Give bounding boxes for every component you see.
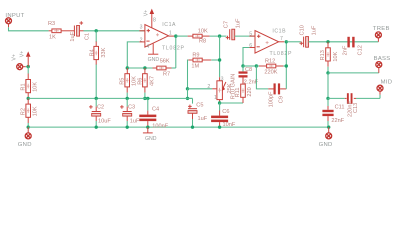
svg-text:R12: R12 (265, 59, 275, 65)
wire C3 to bottom rail (126, 121, 128, 127)
node wiper tee (186, 87, 189, 90)
pad V+ (12, 54, 23, 70)
svg-text:TL082P: TL082P (270, 51, 293, 57)
pad GND right (319, 127, 333, 148)
capacitor C9 100pF (268, 83, 286, 107)
wire R6 bottom to rail (144, 93, 146, 99)
node R12 right (285, 64, 288, 67)
wire feedback rail (127, 67, 152, 69)
svg-text:C2: C2 (97, 105, 104, 111)
resistor R9 1M (188, 52, 211, 69)
svg-text:MID: MID (381, 80, 393, 86)
node Vref left (27, 97, 30, 100)
svg-text:BASS: BASS (374, 56, 391, 62)
svg-text:10uF: 10uF (98, 119, 111, 125)
trimmer R10 GAIN 25K (207, 74, 236, 103)
svg-text:1uF: 1uF (130, 119, 140, 125)
op-amp IC1A (145, 22, 185, 51)
capacitor C5 1uF polarized (188, 98, 208, 122)
svg-text:R5: R5 (120, 78, 126, 85)
resistor R12 220K (256, 59, 286, 76)
capacitor C7 1uF polarized (223, 18, 241, 40)
svg-text:2nF: 2nF (343, 45, 349, 55)
wire C9 right up to output (285, 42, 287, 89)
node output IC1A (174, 34, 177, 37)
svg-text:R13: R13 (320, 50, 326, 60)
resistor R11 220 (235, 81, 253, 103)
wire Vref rail (28, 97, 192, 99)
wire -in of IC1A to feedback node (127, 42, 139, 68)
node C6 bottom (218, 125, 221, 128)
wire R13 bottom to BASS line (327, 67, 329, 73)
supply symbol V+ (19, 51, 30, 67)
svg-text:GND: GND (18, 142, 32, 148)
svg-text:C5: C5 (196, 102, 203, 108)
wire R4 bottom to Vref rail (95, 65, 97, 99)
svg-text:1uF: 1uF (311, 25, 317, 35)
svg-text:C9: C9 (279, 96, 285, 103)
wire bottom ground rail (28, 126, 329, 128)
wire -in IC1B to node (243, 48, 249, 67)
svg-text:100nF: 100nF (152, 124, 168, 130)
wire R9 left down to rail corner (187, 60, 190, 89)
svg-text:IC1A: IC1A (162, 22, 176, 28)
capacitor C10 1uF polarized (299, 25, 317, 47)
node MID tap (326, 97, 329, 100)
svg-text:4: 4 (146, 44, 149, 50)
svg-text:33K: 33K (101, 47, 107, 57)
wire output to R8 (176, 35, 188, 37)
svg-text:8: 8 (153, 18, 156, 24)
svg-text:R9: R9 (192, 52, 199, 58)
svg-text:1K: 1K (49, 35, 56, 41)
svg-text:3: 3 (140, 25, 143, 31)
wire C1 to opamp +in (84, 30, 146, 32)
svg-text:4K7: 4K7 (149, 76, 155, 86)
svg-text:R7: R7 (163, 72, 170, 78)
svg-text:56K: 56K (160, 59, 170, 65)
resistor R1 10K (21, 67, 39, 99)
ground symbol IC1A pin 4 (148, 44, 160, 63)
svg-text:22nF: 22nF (331, 118, 344, 124)
op-amp IC1B (255, 28, 292, 57)
pad TREB (373, 26, 390, 42)
resistor R8 10K (188, 28, 210, 44)
node V+ (27, 65, 30, 68)
wire node down to R9 junction and pot (219, 36, 221, 77)
svg-text:1uF: 1uF (70, 31, 76, 41)
svg-text:V+: V+ (19, 51, 25, 58)
svg-text:2: 2 (207, 84, 210, 90)
node C2 bottom (95, 125, 98, 128)
wire MID line (328, 97, 345, 99)
wire rail segment up-turn (188, 89, 193, 99)
wire C5 to bottom rail (192, 119, 194, 127)
resistor R6 4K7 (137, 68, 155, 93)
wire C2 to bottom rail (95, 121, 97, 127)
svg-text:V+: V+ (144, 10, 150, 17)
ground symbol under C4 (143, 127, 157, 142)
svg-text:10K: 10K (198, 28, 208, 34)
wire BASS line (328, 72, 379, 74)
svg-text:10nF: 10nF (223, 122, 236, 128)
node pot bottom (218, 101, 221, 104)
svg-text:5: 5 (249, 32, 252, 38)
wire R2 to bottom rail (27, 123, 29, 127)
resistor R5 10K (120, 68, 138, 93)
capacitor C4 100nF (139, 97, 168, 130)
pad MID (377, 80, 392, 99)
svg-text:C3: C3 (128, 105, 135, 111)
wire R8 to C7 (210, 35, 227, 37)
IC1A output pin stub (168, 35, 174, 37)
IC1B output pin stub (279, 41, 285, 43)
wire C7 to IC1B +in (235, 35, 255, 37)
wire pot bottom down to C6 (219, 103, 221, 111)
svg-text:3: 3 (221, 77, 224, 83)
IC1B input pin stubs (249, 35, 255, 37)
wire feedback up to output (175, 36, 177, 68)
node R6 top (143, 66, 146, 69)
svg-text:R8: R8 (199, 38, 206, 44)
wire C11 to bottom rail (327, 121, 329, 127)
svg-text:1M: 1M (191, 64, 199, 70)
node C3 bottom (126, 125, 129, 128)
wire node to R12 left node (243, 65, 256, 67)
pad BASS (374, 56, 391, 73)
svg-text:C4: C4 (152, 106, 159, 112)
svg-text:C12: C12 (357, 45, 363, 55)
svg-text:1uF: 1uF (198, 116, 208, 122)
wire junction down to R4 (95, 31, 97, 42)
svg-text:V+: V+ (12, 54, 18, 61)
wire wiper to pot (188, 88, 213, 90)
node R9/vertical (218, 58, 221, 61)
capacitor C8 2.2nF (239, 66, 259, 86)
wire R9 right lead to vertical (211, 59, 219, 61)
svg-text:INPUT: INPUT (5, 13, 24, 19)
svg-text:10K: 10K (33, 106, 39, 116)
wire stub to GND pad (27, 127, 29, 133)
node R8/C7/R9 vertical (218, 34, 221, 37)
wire C9 left branch (256, 66, 268, 89)
resistor R7 56K (153, 59, 176, 78)
svg-text:2: 2 (140, 38, 143, 44)
capacitor C1 1uF polarized (70, 21, 90, 41)
svg-text:1uF: 1uF (235, 18, 241, 28)
wire INPUT pad to input net (8, 24, 10, 28)
resistor R2 10K (21, 98, 39, 123)
wire C10 to TREB line (309, 41, 379, 43)
node output IC1B (285, 40, 288, 43)
wire V+ pad to column (23, 66, 26, 68)
svg-text:TREB: TREB (373, 26, 390, 32)
svg-text:GND: GND (148, 57, 160, 63)
wire down to C11 (327, 98, 329, 106)
capacitor C6 10nF (211, 109, 236, 128)
svg-text:7: 7 (280, 36, 283, 42)
svg-text:R6: R6 (137, 78, 143, 85)
wire output to C10 (286, 41, 301, 43)
svg-text:220: 220 (247, 87, 253, 96)
svg-text:R4: R4 (90, 49, 96, 56)
svg-text:220K: 220K (264, 70, 277, 76)
svg-text:100pF: 100pF (269, 91, 275, 107)
svg-text:IC1B: IC1B (272, 28, 286, 34)
resistor R13 10K (320, 42, 339, 67)
wire C13 to MID pad (356, 97, 380, 99)
svg-text:R2: R2 (21, 108, 27, 115)
svg-text:R1: R1 (21, 83, 27, 90)
svg-text:GND: GND (319, 142, 333, 148)
node C5 bottom (191, 125, 194, 128)
resistor R4 33K (90, 42, 107, 65)
node bottom-right (327, 125, 330, 128)
capacitor C3 1uF polarized (120, 97, 140, 125)
node R13 bottom (326, 71, 329, 74)
pad GND left (18, 133, 32, 148)
svg-text:10K: 10K (33, 82, 39, 92)
svg-text:C1: C1 (85, 33, 91, 40)
node rail up-turn (186, 97, 189, 100)
node bottom-left (27, 125, 30, 128)
node R12 left / C9 left (255, 64, 258, 67)
wire down to MID node (327, 73, 329, 99)
svg-text:C6: C6 (222, 109, 229, 115)
node C4 bottom (146, 125, 149, 128)
supply V+ of IC1A (144, 9, 154, 28)
svg-text:1: 1 (214, 95, 217, 101)
capacitor C13 220nF (345, 93, 359, 117)
svg-text:C13: C13 (353, 103, 359, 113)
svg-text:R11: R11 (235, 88, 241, 98)
svg-text:C8: C8 (245, 67, 252, 73)
svg-text:10K: 10K (333, 51, 339, 61)
svg-text:C7: C7 (223, 21, 229, 28)
svg-text:GND: GND (145, 136, 157, 142)
resistor R3 1K (48, 21, 74, 40)
node R6/rail (143, 97, 146, 100)
capacitor C12 2nF (343, 37, 364, 56)
svg-text:C10: C10 (299, 25, 305, 35)
capacitor C11 22nF (322, 105, 344, 124)
svg-text:TL082P: TL082P (162, 46, 185, 52)
wire R5 bottom to rail (126, 93, 128, 99)
IC1A input pin stubs (139, 30, 145, 32)
capacitor C2 10uF polarized (89, 97, 111, 125)
junction node C1/R4 (95, 29, 98, 32)
wire pot bottom to R11 (220, 102, 243, 104)
svg-text:R3: R3 (48, 21, 55, 27)
svg-text:C11: C11 (335, 105, 345, 111)
node R13 tap (326, 40, 329, 43)
pad INPUT (5, 13, 24, 24)
node -in feedback rail (126, 66, 129, 69)
node -in/C8/R12 (241, 64, 244, 67)
